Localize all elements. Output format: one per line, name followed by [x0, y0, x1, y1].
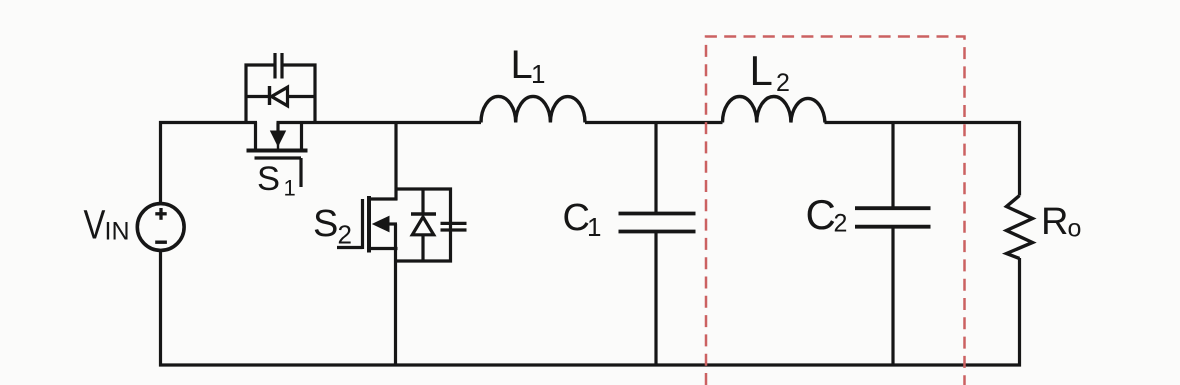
svg-text:2: 2	[338, 220, 352, 250]
S2 body arrow	[387, 222, 398, 225]
svg-text:C: C	[806, 191, 836, 238]
S1 gate plate	[255, 156, 302, 159]
wire top left segment	[161, 123, 258, 205]
svg-text:2: 2	[776, 69, 790, 97]
S1 snubber loop right side	[284, 65, 316, 122]
capacitor C2	[855, 208, 931, 227]
capacitor C1	[619, 214, 696, 232]
S1 gate lead	[299, 158, 302, 187]
svg-text:S: S	[313, 203, 338, 245]
wire top between L1 and L2	[585, 121, 723, 124]
wire top from L2 to top-right corner	[825, 123, 1020, 196]
wire C2 branch lower	[891, 228, 894, 365]
svg-text:L: L	[750, 47, 773, 94]
resistor Ro	[1007, 196, 1033, 259]
S1 channel	[247, 149, 308, 153]
transistor S1	[247, 122, 308, 187]
S2 source stub	[368, 247, 398, 250]
wire C1 branch upper	[654, 123, 657, 213]
inductor L1	[481, 96, 585, 122]
svg-text:1: 1	[531, 59, 545, 89]
svg-text:1: 1	[587, 212, 601, 242]
wire S2 branch lower	[394, 224, 397, 365]
svg-text:2: 2	[834, 210, 848, 238]
S2 channel	[367, 196, 371, 253]
S1 snubber loop left side	[246, 65, 274, 122]
transistor S2	[337, 196, 398, 253]
wire C2 branch upper	[891, 123, 894, 207]
svg-text:IN: IN	[105, 218, 130, 246]
wire left vertical lower + bottom rail	[161, 250, 1020, 366]
wire top from S1 source to L1	[277, 121, 482, 124]
svg-text:R: R	[1041, 201, 1068, 243]
svg-text:V: V	[84, 201, 106, 247]
voltage source VIN	[137, 204, 184, 251]
svg-text:1: 1	[284, 176, 296, 201]
svg-text:S: S	[257, 160, 280, 198]
S2 gate plate	[361, 199, 364, 249]
body diode of S2 (cathode up)	[411, 188, 436, 262]
svg-text:L: L	[511, 43, 533, 87]
wire S2 branch upper	[394, 123, 397, 201]
parasitic capacitor of S2	[441, 223, 467, 230]
wire C1 branch lower	[654, 233, 657, 365]
S2 drain stub	[368, 197, 398, 200]
svg-text:C: C	[563, 197, 590, 239]
diode across S1 (cathode left)	[246, 86, 316, 106]
S2 body-diode loop (top rail, right vertical, bottom rail)	[395, 189, 451, 261]
S1 body arrow	[276, 123, 279, 132]
red dashed boundary box	[706, 37, 965, 385]
S1 drain stub	[254, 122, 257, 150]
S2 gate lead	[337, 246, 363, 249]
svg-text:o: o	[1068, 215, 1082, 243]
S1 source stub	[300, 122, 303, 150]
inductor L2	[723, 96, 826, 122]
capacitor across S1	[275, 53, 282, 79]
